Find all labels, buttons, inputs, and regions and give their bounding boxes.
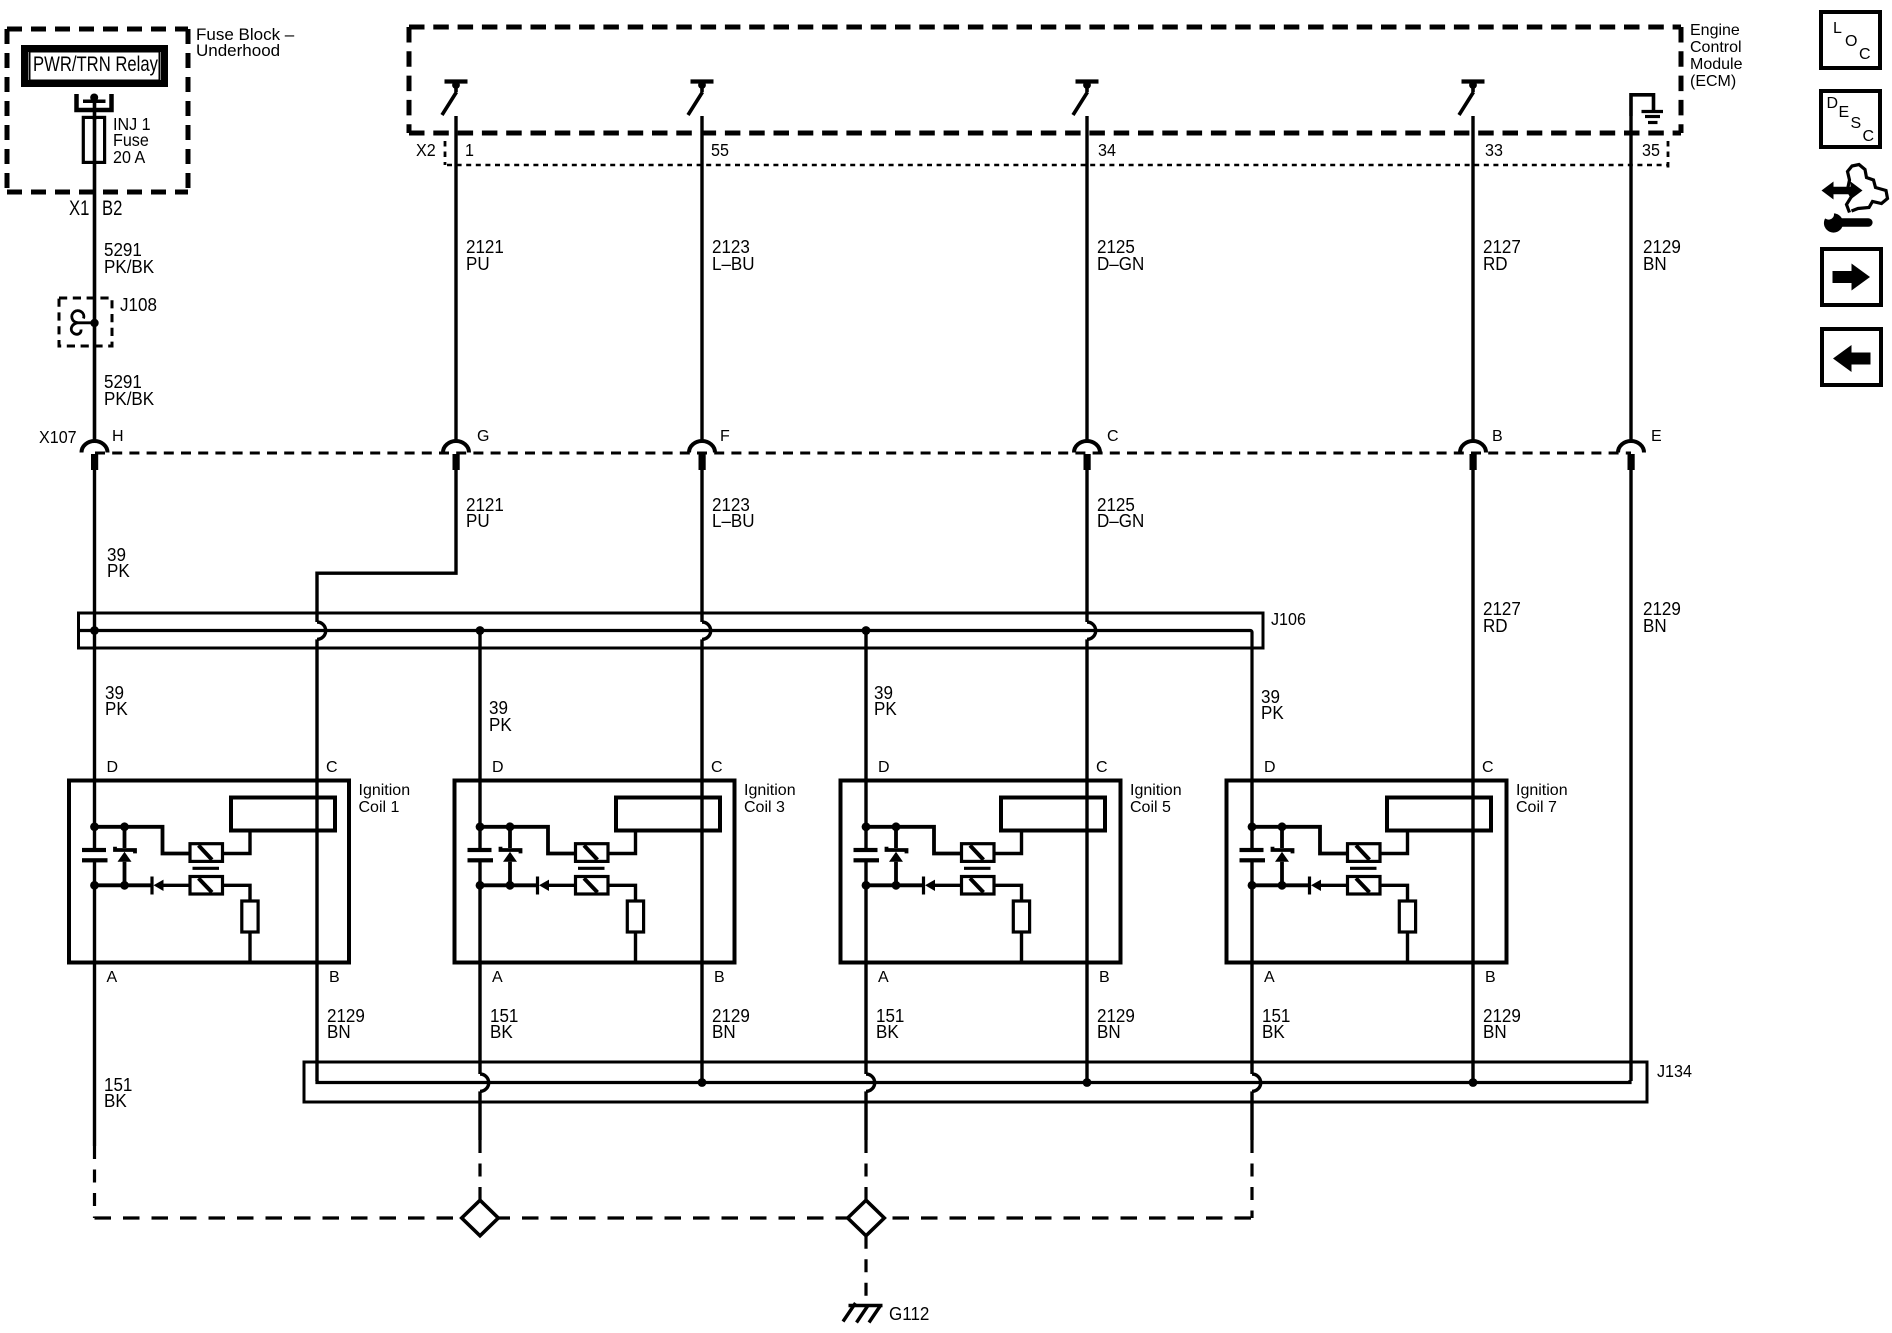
ground splice diamond left — [462, 1200, 499, 1236]
wire 151 BK coil1 A dashed to ground line — [93, 1146, 96, 1218]
coil 5 top junction wire — [866, 827, 962, 854]
coil 7 core — [1350, 867, 1377, 870]
fuse INJ 1 rect — [83, 117, 104, 162]
coil 7 internal connector block — [1387, 798, 1491, 831]
coil 3 resistor — [627, 901, 643, 932]
coil 5 wire cap to lower junction and pin A — [864, 862, 867, 963]
X107 pin B connector — [1460, 441, 1486, 470]
coil 5 lower junction wire — [866, 883, 922, 887]
wire 39 PK J106 to coil3 D — [478, 631, 481, 782]
service icon double arrow — [1822, 182, 1863, 200]
wire 2125 (C down to coil5 C) with hop — [1085, 470, 1088, 781]
coil 1 resistor — [242, 901, 258, 932]
coil 7 wire cap to lower junction and pin A — [1250, 862, 1253, 963]
forward arrow icon box — [1822, 249, 1881, 305]
service icon outline shape — [1847, 165, 1888, 213]
engine control module dashed box — [409, 27, 1681, 133]
coil 7 pin D internal wire — [1250, 781, 1253, 849]
wire 2129 (E down to J134) — [1629, 470, 1632, 1081]
ignition coil 7 box — [1227, 781, 1507, 963]
coil 3 pin D internal wire — [478, 781, 481, 849]
J134 tap dot coil5 B — [1083, 1078, 1092, 1087]
ignition coil 3 box — [455, 781, 735, 963]
wire 2121 PU jog (G down, left, down to coil1 C) — [317, 470, 456, 622]
coil 5 resistor — [1013, 901, 1029, 932]
coil 7 secondary winding — [1348, 877, 1381, 895]
J134 tap dot coil7 B — [1469, 1078, 1478, 1087]
coil 3 core — [578, 867, 605, 870]
coil 1 lower junction wire — [95, 883, 151, 887]
coil 3 primary winding — [576, 844, 609, 862]
ECM internal ground pin 35 — [1631, 95, 1663, 123]
coil 5 node dots lower — [862, 881, 871, 890]
wire 2129 BN coil5 B to J134 dot — [1085, 963, 1088, 1082]
coil 3 capacitor — [468, 848, 494, 863]
coil 1 top junction wire — [95, 827, 191, 854]
X107 pin G connector — [443, 441, 469, 470]
forward arrow — [1833, 264, 1871, 291]
coil 1 wire primary to connector block — [223, 831, 251, 854]
X107 pin F connector — [689, 441, 715, 470]
service icon wrench — [1823, 209, 1872, 233]
wire 151 BK coil7 A down with hop over J134 — [1250, 963, 1253, 1141]
wire 2123 (F down to coil3 C) with hop — [700, 470, 703, 781]
wire 2121 hop over J106 bus — [317, 622, 326, 639]
J134 outer rect — [304, 1062, 1647, 1102]
dashed wire diamond to G112 — [864, 1236, 867, 1302]
coil 5 pin C internal wire — [1085, 781, 1088, 963]
coil 1 capacitor — [82, 848, 108, 863]
coil 5 diode — [924, 877, 962, 895]
ground dashed line — [95, 1216, 1253, 1219]
X2 right bracket — [1667, 141, 1670, 171]
X107 pin E connector — [1618, 441, 1644, 470]
coil 1 node dots top — [90, 822, 99, 831]
J106 tap dot H/coil1 D — [90, 626, 99, 635]
coil 7 node dots top — [1248, 822, 1257, 831]
wire 2127 (B down to coil7 C) — [1471, 470, 1474, 781]
coil 7 wire resistor to case — [1406, 932, 1409, 963]
PWR/TRN relay box — [21, 45, 168, 87]
coil 5 internal connector block — [1001, 798, 1105, 831]
coil 3 pin C internal wire — [700, 781, 703, 963]
wire 2121 PU (pin1 to X107 G) — [454, 116, 457, 443]
coil 3 secondary winding — [576, 877, 609, 895]
coil 5 zener diode — [887, 827, 907, 886]
wire 39 PK (H down through J106 to coil1 D) — [93, 470, 96, 781]
wire 2129 BN coil3 B to J134 dot — [700, 963, 703, 1082]
LOC icon box — [1821, 12, 1880, 68]
X2 connector dotted line — [447, 164, 1668, 167]
coil 1 node dots lower — [90, 881, 99, 890]
relay contact dot — [90, 94, 98, 102]
coil 1 pin D internal wire — [93, 781, 96, 849]
wire 2127 RD (pin33 to X107 B) — [1471, 116, 1474, 443]
coil 1 diode — [152, 877, 190, 895]
coil 3 top junction wire — [480, 827, 576, 854]
coil 5 pin D internal wire — [864, 781, 867, 849]
G112 ground symbol — [843, 1303, 883, 1323]
relay contact bracket — [77, 94, 112, 110]
coil 7 wire primary to connector block — [1380, 831, 1408, 854]
fuse block underhood dashed box — [7, 29, 188, 192]
wire 39 PK J106 to coil5 D — [864, 631, 867, 782]
ignition coil 1 box — [69, 781, 349, 963]
ECM driver transistor pin 33 — [1459, 81, 1485, 115]
coil 1 wire secondary to resistor — [223, 885, 251, 901]
coil 1 wire cap to lower junction and pin A — [93, 862, 96, 963]
coil 3 wire secondary to resistor — [608, 885, 636, 901]
DESC icon box — [1821, 91, 1880, 147]
coil 3 node dots lower — [476, 881, 485, 890]
coil 3 wire primary to connector block — [608, 831, 636, 854]
wire 2129 BN (pin35 to X107 E) — [1629, 116, 1632, 443]
wire through fuse down to X107 (5291 PK/BK) — [93, 117, 97, 443]
wire 2121 below hop to coil1 C — [315, 639, 318, 781]
coil 1 primary winding — [190, 844, 223, 862]
coil 3 lower junction wire — [480, 883, 536, 887]
coil 7 pin C internal wire — [1471, 781, 1474, 963]
wire 151 BK coil3 A down with hop over J134 — [478, 963, 481, 1141]
J134 bus line with end corners up to coil1 B and E wire — [317, 1080, 1630, 1083]
coil 3 zener diode — [501, 827, 521, 886]
coil 5 secondary winding — [962, 877, 995, 895]
coil 7 resistor — [1399, 901, 1415, 932]
wire 151 BK coil1 A down — [93, 963, 96, 1147]
relay contact bar — [83, 100, 106, 104]
coil 3 wire resistor to case — [634, 932, 637, 963]
back arrow icon box — [1822, 329, 1881, 385]
coil 7 capacitor — [1240, 848, 1266, 863]
ground splice diamond right — [848, 1200, 885, 1236]
X107 pin C connector — [1074, 441, 1100, 470]
coil 1 core — [193, 867, 220, 870]
coil 3 node dots top — [476, 822, 485, 831]
J108 splice pigtail — [71, 311, 94, 335]
wire 151 BK coil3 A dashed to diamond — [478, 1140, 481, 1200]
coil 5 core — [964, 867, 991, 870]
coil 5 primary winding — [962, 844, 995, 862]
ECM driver transistor pin 1 — [442, 81, 468, 115]
coil 1 secondary winding — [190, 877, 223, 895]
wire 151 BK coil5 A down with hop over J134 — [864, 963, 867, 1141]
coil 1 internal connector block — [231, 798, 335, 831]
J106 tap dot coil5 D — [862, 626, 871, 635]
wire 151 BK coil5 A dashed to diamond — [864, 1140, 867, 1200]
wire 2129 BN coil1 B to J134 bus corner — [315, 963, 318, 1082]
wire 2129 BN coil7 B to J134 dot — [1471, 963, 1474, 1082]
J106 bus line — [80, 630, 1252, 781]
J108 splice dashed box — [59, 298, 112, 346]
X2 left bracket — [444, 141, 447, 165]
coil 7 top junction wire — [1252, 827, 1348, 854]
J106 outer rect — [79, 613, 1264, 648]
coil 5 capacitor — [854, 848, 880, 863]
ECM driver transistor pin 55 — [688, 81, 714, 115]
wire 2123 L-BU (pin55 to X107 F) — [700, 116, 703, 443]
coil 3 wire cap to lower junction and pin A — [478, 862, 481, 963]
wire relay to fuse — [93, 101, 97, 120]
coil 3 internal connector block — [616, 798, 720, 831]
J134 tap dot coil3 B — [698, 1078, 707, 1087]
coil 7 wire secondary to resistor — [1380, 885, 1408, 901]
ignition coil 5 box — [841, 781, 1121, 963]
coil 5 wire primary to connector block — [994, 831, 1022, 854]
J106 tap dot coil3 D — [476, 626, 485, 635]
coil 7 lower junction wire — [1252, 883, 1308, 887]
coil 7 primary winding — [1348, 844, 1381, 862]
coil 5 wire resistor to case — [1020, 932, 1023, 963]
X107 pin H connector — [82, 441, 108, 470]
coil 7 node dots lower — [1248, 881, 1257, 890]
coil 1 zener diode — [115, 827, 135, 886]
coil 7 zener diode — [1273, 827, 1293, 886]
coil 1 pin C internal wire — [315, 781, 318, 963]
coil 5 node dots top — [862, 822, 871, 831]
coil 7 diode — [1310, 877, 1348, 895]
coil 5 wire secondary to resistor — [994, 885, 1022, 901]
wire 151 BK coil7 A dashed corner to ground line — [1250, 1140, 1253, 1218]
wire 2125 D-GN (pin34 to X107 C) — [1085, 116, 1088, 443]
J108 splice dot — [90, 319, 98, 327]
coil 1 wire resistor to case — [248, 932, 251, 963]
X107 dashed line — [95, 452, 1631, 455]
back arrow — [1833, 345, 1871, 372]
coil 3 diode — [538, 877, 576, 895]
ECM driver transistor pin 34 — [1073, 81, 1099, 115]
